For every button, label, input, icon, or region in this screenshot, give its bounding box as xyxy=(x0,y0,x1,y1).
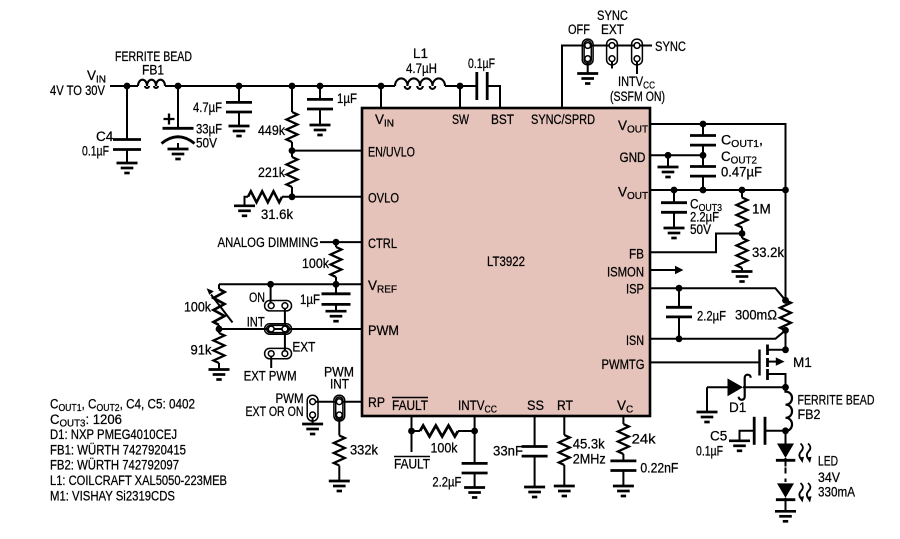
svg-text:0.22nF: 0.22nF xyxy=(640,461,678,476)
diode D1 schottky xyxy=(707,375,786,415)
node PWM INT label xyxy=(246,365,355,420)
capacitor 33uF 50V electrolytic xyxy=(162,86,223,151)
capacitor C4 0.1uF xyxy=(82,86,141,163)
ground below 33.2k xyxy=(732,272,753,282)
svg-text:FAULT: FAULT xyxy=(394,457,430,472)
node VOUT top junction xyxy=(700,121,707,128)
wire input rail xyxy=(110,85,477,87)
resistor R 449k xyxy=(258,86,298,151)
svg-text:91k: 91k xyxy=(191,343,212,358)
wire ISN xyxy=(650,330,786,339)
ground below C4 xyxy=(117,163,138,173)
node PWM junction xyxy=(216,326,223,333)
ground below D1 xyxy=(697,412,718,422)
op-amp U1 LT3922 IC body xyxy=(362,108,650,416)
ground below 4.7uF xyxy=(229,126,250,136)
wire PWM-INT jumper to 332k xyxy=(338,415,340,435)
svg-text:EXT: EXT xyxy=(601,22,624,37)
ground below LED string xyxy=(775,511,796,521)
svg-text:L1: L1 xyxy=(413,46,428,61)
capacitor C5 0.1uF xyxy=(696,417,786,459)
connector JP SYNC EXT xyxy=(607,39,618,65)
potentiometer 100k xyxy=(184,284,233,329)
svg-text:EXT OR ON: EXT OR ON xyxy=(246,404,304,419)
wire rail to M1 source xyxy=(785,330,787,352)
svg-text:300mΩ: 300mΩ xyxy=(735,308,777,323)
node INTVCC junction xyxy=(471,428,478,435)
svg-text:50V: 50V xyxy=(196,136,217,151)
ground below C5 xyxy=(729,441,750,451)
resistor R 100k CTRL xyxy=(302,242,342,284)
connector JP PWM INT (shunt installed) xyxy=(334,395,345,421)
ground below COUT3 xyxy=(664,228,685,238)
svg-text:FERRITE BEAD: FERRITE BEAD xyxy=(798,393,875,408)
svg-text:EXT: EXT xyxy=(292,340,315,355)
ground below 31.6k xyxy=(234,206,255,216)
svg-text:LED: LED xyxy=(818,454,838,469)
svg-text:FB1: WÜRTH 7427920415: FB1: WÜRTH 7427920415 xyxy=(50,442,186,457)
svg-text:M1: M1 xyxy=(793,355,812,370)
resistor R 24k VC xyxy=(618,424,656,454)
node EN junction xyxy=(289,147,296,154)
svg-text:4V TO 30V: 4V TO 30V xyxy=(50,83,105,98)
svg-text:SYNC/SPRD: SYNC/SPRD xyxy=(531,112,595,127)
connector JP ON xyxy=(265,301,292,311)
resistor R 1M xyxy=(737,190,771,234)
svg-text:M1: VISHAY Si2319CDS: M1: VISHAY Si2319CDS xyxy=(50,488,175,503)
IC pin labels right xyxy=(602,118,649,372)
svg-text:INT: INT xyxy=(330,377,349,392)
node M1 source junction xyxy=(782,346,789,353)
resistor R 100k FAULT pullup xyxy=(412,426,475,456)
svg-text:L1: COILCRAFT XAL5050-223MEB: L1: COILCRAFT XAL5050-223MEB xyxy=(50,473,227,488)
wire D1 anode to ground xyxy=(706,387,708,411)
wire VC pin drop xyxy=(622,416,624,486)
resistor R 31.6k xyxy=(245,191,294,222)
wire VOUT top xyxy=(650,124,786,190)
svg-text:ISMON: ISMON xyxy=(607,265,644,280)
svg-text:449k: 449k xyxy=(258,123,285,138)
svg-text:ISP: ISP xyxy=(626,282,644,297)
svg-text:100k: 100k xyxy=(184,300,211,315)
wire PWM-EXT jumper to ground xyxy=(312,415,314,423)
node GND junctions xyxy=(665,152,672,159)
connector JP INT (shunt installed) xyxy=(265,324,292,334)
svg-text:50V: 50V xyxy=(690,222,711,237)
svg-text:OVLO: OVLO xyxy=(368,191,399,206)
svg-text:332k: 332k xyxy=(350,443,378,458)
svg-text:4.7µH: 4.7µH xyxy=(406,61,437,76)
ground below RT xyxy=(554,486,575,496)
svg-text:FAULT: FAULT xyxy=(392,398,428,413)
svg-text:33.2k: 33.2k xyxy=(752,245,784,260)
wire RP line xyxy=(313,401,362,403)
svg-text:SYNC: SYNC xyxy=(655,39,686,54)
resistor R 221k xyxy=(258,151,298,197)
node D1 junction xyxy=(782,384,789,391)
wire jumper right-side link xyxy=(284,306,286,354)
ferrite bead FB2 xyxy=(786,387,875,431)
node ISP junctions xyxy=(676,285,683,292)
svg-text:100k: 100k xyxy=(302,256,329,271)
capacitor 2.2uF sense xyxy=(666,288,726,339)
svg-text:PWM: PWM xyxy=(368,323,399,338)
node OVLO junction xyxy=(289,193,296,200)
node FAULT junction xyxy=(408,428,415,435)
IC pin labels bottom xyxy=(392,398,633,416)
svg-text:1M: 1M xyxy=(752,202,771,217)
resistor R 45.3k RT xyxy=(559,435,606,467)
svg-text:221k: 221k xyxy=(258,165,285,180)
svg-text:24k: 24k xyxy=(632,432,656,447)
svg-text:FB2: WÜRTH 742792097: FB2: WÜRTH 742792097 xyxy=(50,458,179,473)
svg-text:FB1: FB1 xyxy=(142,63,164,78)
ground below 33nF xyxy=(524,487,545,497)
LED D3 bottom xyxy=(776,483,812,511)
svg-text:BST: BST xyxy=(491,112,514,127)
svg-text:ANALOG DIMMING: ANALOG DIMMING xyxy=(218,235,319,250)
svg-text:C5: C5 xyxy=(710,429,727,444)
ground below 1uF xyxy=(310,125,331,135)
wire VOUT rail down xyxy=(785,190,787,300)
svg-text:FB: FB xyxy=(629,247,644,262)
ground below 1uF VREF xyxy=(326,311,347,321)
wire FB xyxy=(650,234,742,253)
ground below 332k xyxy=(329,481,350,491)
node VREF junctions xyxy=(267,281,274,288)
svg-text:EXT PWM: EXT PWM xyxy=(244,369,297,384)
capacitor COUT2 xyxy=(690,133,763,191)
svg-text:RP: RP xyxy=(368,395,385,410)
capacitor 2.2uF INTVCC xyxy=(432,463,487,489)
svg-text:2.2µF: 2.2µF xyxy=(697,309,726,324)
ferrite bead FB1 xyxy=(115,49,192,88)
svg-text:1µF: 1µF xyxy=(300,292,320,307)
capacitor 0.1uF BST xyxy=(468,56,500,108)
svg-text:FB2: FB2 xyxy=(798,407,821,422)
node rail junctions xyxy=(124,83,131,90)
node SYNC labels xyxy=(568,8,686,104)
node FB2 junction xyxy=(782,427,789,434)
svg-text:ISN: ISN xyxy=(626,333,644,348)
resistor R 300mohm sense xyxy=(735,300,791,330)
LED D2 top xyxy=(776,431,812,467)
svg-text:INT: INT xyxy=(247,315,265,330)
node FB junction xyxy=(739,230,746,237)
wire OVLO xyxy=(292,196,362,198)
svg-text:33µF: 33µF xyxy=(196,122,222,137)
svg-text:OFF: OFF xyxy=(568,22,590,37)
svg-text:45.3k: 45.3k xyxy=(573,437,605,452)
IC pin labels left xyxy=(368,112,415,410)
svg-text:0.1µF: 0.1µF xyxy=(82,144,109,159)
svg-text:1µF: 1µF xyxy=(337,91,357,106)
connector JP PWM EXT OR ON xyxy=(307,395,318,421)
svg-text:CTRL: CTRL xyxy=(368,236,397,251)
capacitor 1uF VREF xyxy=(300,284,351,311)
wire jumper3 to INTVCC xyxy=(636,59,638,74)
wire VOUT second xyxy=(650,189,786,191)
ground below OFF jumper xyxy=(577,74,598,84)
svg-text:SS: SS xyxy=(527,398,544,413)
svg-text:D1: D1 xyxy=(729,400,746,415)
node ISN junctions xyxy=(676,335,683,342)
svg-text:D1: NXP PMEG4010CEJ: D1: NXP PMEG4010CEJ xyxy=(50,427,177,442)
wire GND pin xyxy=(650,154,703,156)
svg-text:LT3922: LT3922 xyxy=(487,254,525,269)
svg-text:SYNC: SYNC xyxy=(597,8,628,23)
wire PWM line xyxy=(219,328,362,330)
ground below PWM-EXT jumper xyxy=(302,424,323,434)
ground below 91k xyxy=(209,370,230,380)
connector JP SYNC INTVCC xyxy=(632,39,643,65)
node VOUT2 junctions xyxy=(671,187,678,194)
wire SYNC header rail xyxy=(562,46,652,109)
svg-text:4.7µF: 4.7µF xyxy=(193,100,222,115)
ground below VC xyxy=(613,486,634,496)
wire PWMTG xyxy=(650,361,760,363)
wire VREF line xyxy=(219,283,362,285)
wire SS pin drop xyxy=(534,416,536,487)
node VIN input label xyxy=(50,68,106,98)
svg-text:33nF: 33nF xyxy=(493,444,523,459)
node jumper labels xyxy=(244,290,316,384)
capacitor COUT1 xyxy=(690,124,716,155)
wire FAULT pin drop xyxy=(411,416,413,452)
transistor Q M1 PMOS xyxy=(760,345,812,388)
connector JP EXT xyxy=(265,348,292,358)
svg-text:100k: 100k xyxy=(431,441,458,456)
svg-text:(SSFM ON): (SSFM ON) xyxy=(610,89,665,104)
wire RT pin drop xyxy=(563,416,565,486)
svg-text:330mA: 330mA xyxy=(818,485,855,500)
capacitor 0.22nF VC xyxy=(610,461,678,476)
ground below 2.2uF xyxy=(464,488,485,498)
wire INTVCC pin drop xyxy=(474,416,476,487)
svg-text:0.1µF: 0.1µF xyxy=(468,56,495,71)
resistor R 33.2k xyxy=(737,234,785,272)
svg-text:PWMTG: PWMTG xyxy=(602,357,645,372)
wire ISP xyxy=(650,288,786,300)
svg-text:RT: RT xyxy=(557,398,573,413)
capacitor 4.7uF xyxy=(193,86,252,126)
node notes block xyxy=(50,397,227,504)
capacitor COUT3 xyxy=(661,190,722,237)
ground below 33uF xyxy=(168,149,189,159)
svg-text:31.6k: 31.6k xyxy=(261,207,293,222)
wire VIN pin stub xyxy=(380,86,382,108)
wire ON jumper drop xyxy=(270,284,272,305)
node CTRL junction xyxy=(333,239,340,246)
IC pin labels top xyxy=(452,112,595,127)
wire jumper1 to ground xyxy=(587,59,589,73)
wire SW pin stub xyxy=(459,86,461,108)
inductor L1 4.7uH xyxy=(395,46,445,89)
wire EXT PWM drop xyxy=(270,354,272,368)
svg-text:C4: C4 xyxy=(96,129,114,144)
wire dashed LED string xyxy=(785,468,787,483)
wire ISMON arrow xyxy=(650,266,683,274)
connector JP OFF (shunt installed) xyxy=(582,39,593,65)
svg-text:EN/UVLO: EN/UVLO xyxy=(368,145,415,160)
capacitor 1uF input xyxy=(307,86,357,125)
ground GND pin xyxy=(658,155,679,177)
resistor R 332k xyxy=(334,436,378,481)
svg-text:2MHz: 2MHz xyxy=(573,452,606,467)
svg-text:2.2µF: 2.2µF xyxy=(432,475,461,490)
svg-text:0.47µF: 0.47µF xyxy=(721,165,762,180)
wire jumper2 stub xyxy=(611,59,613,69)
svg-text:SW: SW xyxy=(452,112,469,127)
wire CTRL xyxy=(320,241,362,243)
svg-text:34V: 34V xyxy=(818,470,840,485)
node FAULT net label xyxy=(394,457,430,472)
capacitor 33nF SS xyxy=(493,444,548,459)
node LED labels xyxy=(818,454,855,500)
svg-text:ON: ON xyxy=(249,290,265,305)
svg-text:0.1µF: 0.1µF xyxy=(696,444,723,459)
wire EN/UVLO xyxy=(292,150,362,152)
svg-text:GND: GND xyxy=(620,150,646,165)
resistor R 91k xyxy=(191,329,225,369)
